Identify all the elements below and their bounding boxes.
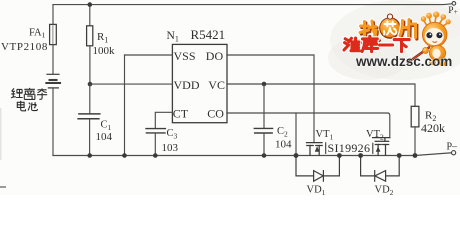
- pin label VSS: [174, 49, 196, 63]
- 找 glyph: [360, 21, 380, 43]
- svg-text:www.dzsc.com: www.dzsc.com: [355, 54, 452, 69]
- junction dot R1/C1/VDD: [88, 82, 93, 87]
- wire CT pin to capacitor C3: [155, 112, 172, 128]
- wire fuse to battery: [52, 45, 54, 74]
- wire R1 to VDD junction: [89, 46, 91, 84]
- label 104 (C1 value): [96, 131, 113, 143]
- label VTP2108: [1, 41, 48, 53]
- svg-text:VC: VC: [208, 78, 225, 92]
- wire CO pin to VT2 gate: [227, 113, 390, 138]
- terminal P-: [452, 151, 456, 155]
- label SI9926: [328, 141, 371, 155]
- resistor R2: [411, 106, 419, 127]
- svg-text:VDD: VDD: [174, 78, 200, 92]
- label 103 (C3 value): [162, 142, 179, 154]
- wire VDD pin to R1/C1 junction: [90, 83, 172, 85]
- label VD1: [307, 185, 326, 198]
- wire VC pin to resistor R2: [227, 84, 415, 106]
- svg-text:103: 103: [162, 142, 179, 154]
- capacitor C3: [146, 129, 165, 133]
- wire junction to capacitor C1: [89, 84, 91, 113]
- svg-text:CT: CT: [173, 107, 189, 121]
- wire VC junction down to capacitor C2: [263, 84, 265, 128]
- wire C2 to bottom rail: [263, 134, 265, 156]
- junction dot C1/bottom rail: [87, 153, 92, 158]
- wire rail to terminal P-: [415, 153, 452, 156]
- label P+: [448, 6, 458, 16]
- pin label CO: [207, 107, 224, 121]
- label N1: [167, 30, 179, 44]
- label C2: [277, 126, 288, 139]
- capacitor C1: [78, 114, 100, 119]
- junction dot VD2 right: [397, 153, 402, 158]
- junction dot C2/bottom rail: [262, 153, 267, 158]
- label FA1: [29, 28, 46, 40]
- label 104 (C2 value): [275, 138, 292, 150]
- watermark logo 找芯片 / mascot / 维库一下 / www.dzsc.com: [344, 12, 452, 70]
- label R2: [425, 110, 436, 124]
- 芯 ball: [378, 14, 401, 40]
- fuse FA1 VTP2108: [50, 24, 57, 44]
- svg-text:VTP2108: VTP2108: [1, 41, 48, 53]
- svg-text:SI19926: SI19926: [328, 141, 371, 155]
- label R5421: [191, 27, 226, 42]
- wire C3 to bottom rail: [154, 134, 156, 156]
- svg-text:104: 104: [96, 131, 113, 143]
- svg-text:420k: 420k: [421, 121, 445, 135]
- label P-: [447, 141, 459, 152]
- pin label VC: [208, 78, 225, 92]
- capacitor C2: [254, 128, 272, 133]
- www.dzsc.com: [355, 54, 452, 69]
- wire bottom B- rail: [53, 155, 415, 157]
- svg-text:104: 104: [275, 138, 292, 150]
- wire C1 to bottom rail: [89, 120, 91, 156]
- label 100k: [93, 45, 116, 57]
- svg-text:100k: 100k: [93, 45, 116, 57]
- label C3: [167, 128, 178, 141]
- mascot: [408, 12, 451, 67]
- 维库一下 red glyphs: [344, 36, 409, 51]
- wire VSS column down to bottom rail: [124, 55, 126, 156]
- label 电池 (battery) hand-drawn glyphs: [17, 101, 37, 111]
- wire DO pin to VT1 gate: [227, 55, 314, 143]
- transistor VT2 (MOSFET, charge control): [373, 138, 390, 155]
- svg-text:DO: DO: [206, 49, 224, 63]
- battery GB (lithium-ion cell): [46, 74, 60, 88]
- junction dot VC/C2: [262, 82, 267, 87]
- wire R2 to bottom rail: [414, 127, 416, 156]
- svg-text:P–: P–: [447, 141, 459, 152]
- svg-text:P+: P+: [448, 6, 458, 16]
- junction dot VD2 left: [358, 153, 363, 158]
- junction dot R2/bottom rail: [413, 153, 418, 158]
- diode VD2 (body diode of VT2): [361, 156, 400, 182]
- terminal P+: [452, 2, 456, 6]
- junction dot VD1 right: [337, 153, 342, 158]
- scan background mottling: [1, 0, 460, 160]
- resistor R1: [87, 26, 93, 46]
- pin label VDD: [174, 78, 200, 92]
- 片 glyph: [400, 20, 417, 40]
- scan artifact dash bottom-left: [0, 186, 6, 188]
- pin label CT: [173, 107, 189, 121]
- op-amp: IC N1 R5421 protection controller box: [172, 44, 227, 122]
- junction dot C3/bottom rail: [153, 153, 158, 158]
- pin label DO: [206, 49, 224, 63]
- label R1: [97, 31, 108, 45]
- wire B+ rail to resistor R1: [89, 5, 91, 26]
- svg-text:VSS: VSS: [174, 49, 196, 63]
- wire battery to bottom rail: [52, 89, 54, 156]
- transistor VT1 (MOSFET, discharge control): [307, 143, 323, 155]
- label 锂离子 (lithium-ion) hand-drawn glyphs: [11, 88, 47, 100]
- wire drop from CO line to bottom rail at VD1: [295, 113, 297, 156]
- svg-text:CO: CO: [207, 107, 224, 121]
- diode VD1 (body diode of VT1): [296, 156, 339, 182]
- wire top B+ rail: [53, 3, 452, 6]
- svg-text:R5421: R5421: [191, 27, 226, 42]
- label VT1: [316, 129, 334, 142]
- label C1: [101, 119, 112, 132]
- junction dot VD1 left: [294, 153, 299, 158]
- label VT2: [366, 129, 384, 142]
- wire VSS pin to left column: [125, 54, 173, 56]
- label 420k: [421, 121, 445, 135]
- label VD2: [375, 185, 394, 198]
- junction dot VSS/bottom rail: [122, 153, 127, 158]
- junction dot top rail / R1: [88, 2, 93, 7]
- SI9926 package bracket marks: [326, 143, 373, 154]
- wire B+ rail to fuse FA1: [52, 5, 54, 25]
